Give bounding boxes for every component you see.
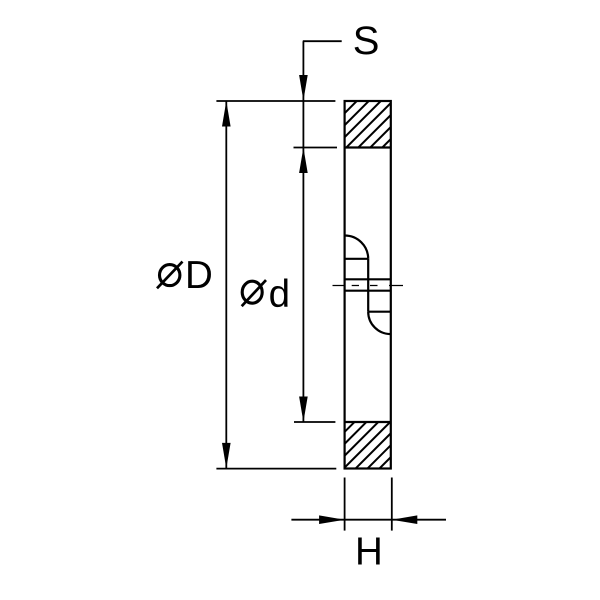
dimension line Ød and S (302, 41, 304, 422)
split bottom arc (368, 312, 391, 334)
leader line S (303, 40, 342, 42)
label ØD (157, 254, 213, 297)
extension line top Ød (294, 147, 338, 149)
hatch boundary bottom (345, 421, 391, 423)
svg-text:H: H (355, 531, 383, 574)
extension line bottom ØD (216, 468, 336, 470)
hatching top section (298, 90, 440, 160)
svg-text:S: S (353, 19, 380, 63)
extension line bottom Ød (294, 421, 335, 423)
arrow ØD down (222, 443, 231, 469)
arrow H right-pointing (319, 515, 345, 524)
extension line H right (391, 478, 393, 531)
arrow ØD up (222, 101, 231, 127)
split bottom end face (368, 311, 391, 313)
dimension line H (291, 519, 446, 521)
svg-text:d: d (269, 273, 290, 316)
extension line H left (344, 478, 346, 531)
arrow H left-pointing (392, 515, 418, 524)
split vertical face (367, 259, 369, 312)
split top end face (345, 258, 369, 260)
split top arc (345, 236, 369, 259)
center line (333, 285, 404, 287)
svg-text:D: D (185, 254, 213, 297)
gap lower edge (345, 290, 391, 292)
extension line top ØD (216, 100, 335, 102)
washer outline (345, 101, 391, 469)
arrow Ød up (299, 148, 308, 174)
arrow S down (299, 75, 308, 101)
label Ød (242, 273, 290, 316)
gap upper edge (345, 278, 391, 280)
dimension line ØD (225, 101, 227, 469)
hatch boundary top (345, 146, 391, 148)
arrow Ød down (299, 397, 308, 423)
hatching bottom section (297, 410, 438, 480)
